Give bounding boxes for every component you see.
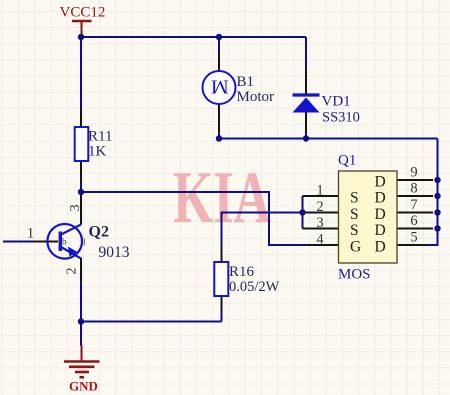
wire diode top drop	[305, 37, 307, 67]
wire source to R16	[222, 213, 303, 248]
svg-text:3: 3	[68, 205, 83, 212]
svg-text:7: 7	[410, 197, 417, 213]
junction node collector	[78, 189, 84, 195]
svg-text:D: D	[375, 206, 386, 223]
svg-text:D: D	[375, 189, 386, 206]
svg-text:S: S	[350, 206, 359, 223]
svg-text:b: b	[62, 237, 67, 247]
pin base Q2	[33, 241, 58, 243]
wire diode bottom	[305, 132, 307, 139]
wire base	[3, 241, 33, 243]
svg-text:Q2: Q2	[89, 224, 109, 241]
svg-text:0.05/2W: 0.05/2W	[229, 279, 280, 295]
diode VD1	[293, 95, 320, 113]
svg-text:GND: GND	[69, 379, 98, 394]
svg-text:VCC12: VCC12	[60, 5, 106, 21]
svg-text:VD1: VD1	[322, 94, 351, 110]
wire R11 lower to node	[80, 182, 82, 192]
wire motor bottom	[218, 132, 220, 139]
pin diode top	[305, 67, 307, 94]
pin Q1-7	[397, 212, 433, 214]
svg-text:1K: 1K	[88, 144, 107, 160]
pin collector Q2	[80, 195, 82, 225]
svg-text:S: S	[350, 222, 359, 239]
svg-text:MOS: MOS	[338, 267, 371, 283]
pin Q1-9	[397, 179, 433, 181]
junction node drain 8	[434, 193, 440, 199]
svg-text:D: D	[375, 238, 386, 255]
pin Q1-5	[397, 244, 428, 246]
svg-text:M: M	[211, 76, 229, 98]
junction node motor bottom	[216, 135, 222, 141]
pin Q1-3	[303, 228, 339, 230]
svg-text:4: 4	[316, 232, 324, 248]
wire emitter rail bottom	[81, 321, 222, 323]
wire motor top drop	[218, 37, 220, 53]
pin motor bottom	[218, 104, 220, 132]
pin Q1-2	[303, 212, 339, 214]
svg-text:3: 3	[316, 215, 323, 231]
motor B1	[203, 71, 236, 104]
svg-text:3: 3	[81, 237, 86, 247]
svg-text:D: D	[375, 222, 386, 239]
pin diode bottom	[305, 112, 307, 132]
wire source bus	[302, 196, 304, 229]
pin R16 bottom	[221, 296, 223, 311]
resistor R16	[214, 262, 228, 296]
svg-text:6: 6	[410, 213, 417, 229]
resistor R11	[75, 127, 89, 161]
svg-text:R11: R11	[88, 129, 112, 145]
wire to GND	[80, 322, 82, 346]
pin Q1-1	[303, 195, 339, 197]
pin Q1-8	[397, 195, 433, 197]
svg-text:9013: 9013	[99, 244, 130, 261]
pin R11 top	[80, 107, 82, 127]
junction node drain 7	[434, 209, 440, 215]
wire R16 bottom	[221, 311, 223, 322]
junction node motor top	[216, 34, 222, 40]
pin emitter Q2	[80, 258, 82, 282]
svg-text:G: G	[350, 238, 361, 255]
pin R16 top	[221, 247, 223, 262]
svg-text:8: 8	[410, 181, 417, 197]
wire drain bus right	[428, 139, 438, 246]
wire R11 upper	[80, 37, 82, 107]
svg-text:Q1: Q1	[338, 153, 356, 169]
transistor Q2	[47, 224, 86, 259]
IC Q1 body	[339, 171, 398, 263]
wire drain rail	[219, 138, 438, 140]
svg-text:2: 2	[64, 268, 79, 275]
svg-text:SS310: SS310	[322, 110, 360, 126]
wire VCC rail top	[81, 36, 306, 38]
pin Q1-4	[306, 244, 339, 246]
svg-text:B1: B1	[237, 74, 255, 90]
pin motor top	[218, 53, 220, 72]
svg-text:D: D	[375, 173, 386, 190]
svg-text:5: 5	[410, 230, 417, 246]
junction node source bus	[299, 209, 305, 215]
junction node emitter rail	[78, 318, 84, 324]
wire gate from collector node	[81, 192, 306, 245]
junction node diode bottom	[303, 135, 309, 141]
pin R11 bottom	[80, 161, 82, 182]
svg-text:1: 1	[316, 183, 323, 199]
junction node VCC	[78, 34, 84, 40]
svg-text:9: 9	[410, 165, 417, 181]
svg-text:2: 2	[316, 199, 323, 215]
junction node drain 6	[434, 225, 440, 231]
junction node drain 9	[434, 177, 440, 183]
pin Q1-6	[397, 228, 433, 230]
svg-text:R16: R16	[229, 264, 255, 280]
power VCC12 symbol	[72, 21, 92, 34]
wire emitter down	[80, 282, 82, 322]
svg-text:S: S	[350, 189, 359, 206]
svg-text:Motor: Motor	[237, 89, 275, 105]
svg-text:1: 1	[27, 226, 34, 242]
ground symbol	[64, 345, 100, 377]
